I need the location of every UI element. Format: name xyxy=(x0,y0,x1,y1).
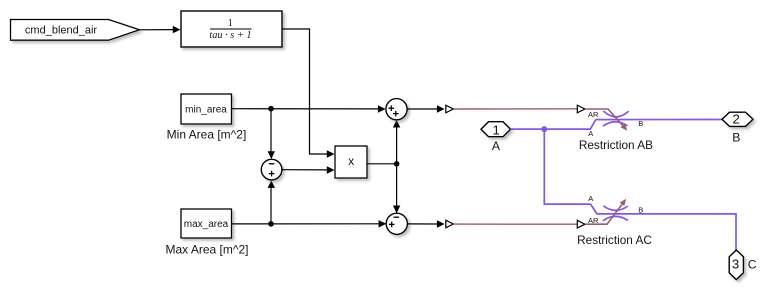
inport cmd_blend_air xyxy=(11,20,140,41)
svg-text:Max Area [m^2]: Max Area [m^2] xyxy=(166,243,249,257)
svg-text:B: B xyxy=(732,130,740,144)
restriction AB control arrow (brown) xyxy=(585,109,627,131)
node junction on max_area wire xyxy=(268,221,274,227)
svg-text:3: 3 xyxy=(732,257,739,272)
pin PS input marker (hollow triangle) bottom xyxy=(446,220,454,228)
restriction AB icon main line (A to B) xyxy=(596,119,722,121)
pin AR port triangle of Restriction AC xyxy=(577,220,585,228)
wire junction down to Sum3 top xyxy=(268,109,275,159)
svg-text:C: C xyxy=(748,258,757,272)
svg-text:B: B xyxy=(638,119,643,128)
svg-text:AR: AR xyxy=(588,110,599,119)
restriction AC control arrow (brown) xyxy=(585,199,626,225)
wire Sum4 output xyxy=(407,220,444,227)
svg-text:max_area: max_area xyxy=(184,219,229,230)
node purple junction xyxy=(541,126,547,132)
wire Sum1 output xyxy=(407,105,445,112)
svg-text:Restriction AB: Restriction AB xyxy=(579,138,653,152)
svg-text:cmd_blend_air: cmd_blend_air xyxy=(25,24,97,36)
restriction AB venturi curves xyxy=(603,111,629,126)
restriction AC venturi curves xyxy=(603,206,628,221)
svg-text:A: A xyxy=(492,139,501,153)
svg-text:1: 1 xyxy=(493,122,500,137)
node junction on min_area wire xyxy=(268,106,274,112)
sum block Sum3 (minus top, plus bottom) xyxy=(261,159,282,180)
wire min_area to Sum1 xyxy=(232,105,386,112)
svg-text:A: A xyxy=(588,194,593,203)
port 1 (A) hexagon xyxy=(481,122,511,138)
svg-text:x: x xyxy=(348,154,354,168)
physical wire Restriction AC B to port 3 xyxy=(735,214,737,250)
svg-text:tau · s + 1: tau · s + 1 xyxy=(209,30,251,41)
svg-text:min_area: min_area xyxy=(185,104,227,115)
wire junction up to Sum3 bottom xyxy=(268,180,275,224)
physical signal wire to Restriction AC AR xyxy=(454,223,577,225)
wire max_area to Sum4 xyxy=(232,220,387,227)
product block Product (x) xyxy=(335,146,367,178)
svg-text:1: 1 xyxy=(228,18,233,29)
svg-text:A: A xyxy=(588,129,593,138)
svg-text:AR: AR xyxy=(588,216,599,225)
pin AR port triangle of Restriction AB xyxy=(577,105,585,113)
constant block min_area xyxy=(181,94,232,124)
svg-text:B: B xyxy=(638,206,643,215)
svg-text:2: 2 xyxy=(733,112,740,127)
svg-text:Min Area [m^2]: Min Area [m^2] xyxy=(167,127,247,141)
wire Product to junction xyxy=(367,163,397,165)
physical wire port1 to Restriction AB A xyxy=(511,120,596,130)
sum block Sum4 (plus left, minus top) xyxy=(386,213,407,234)
wire junction down to Sum4 top xyxy=(393,164,400,213)
physical signal wire to Restriction AB AR xyxy=(454,108,577,110)
wire junction up to Sum1 bottom xyxy=(393,120,400,164)
wire Transfer Fcn to Product (elbow) xyxy=(282,29,335,158)
port 3 (C) hexagon (vertical) xyxy=(729,250,743,280)
wire Sum3 to Product xyxy=(282,166,335,173)
constant block max_area xyxy=(181,209,232,238)
transfer function U1 1/(tau*s+1) xyxy=(181,11,282,47)
restriction AC icon main line (A to B) xyxy=(597,213,737,215)
port 2 (B) hexagon xyxy=(722,112,753,127)
pin PS input marker (hollow triangle) top xyxy=(446,105,454,113)
node junction on product output xyxy=(394,161,400,167)
sum block Sum1 (plus left, plus bottom) xyxy=(386,99,407,120)
wire cmd_blend_air to Transfer Fcn xyxy=(140,26,181,33)
physical wire junction down to Restriction AC A xyxy=(544,129,597,214)
svg-text:Restriction AC: Restriction AC xyxy=(577,233,652,247)
